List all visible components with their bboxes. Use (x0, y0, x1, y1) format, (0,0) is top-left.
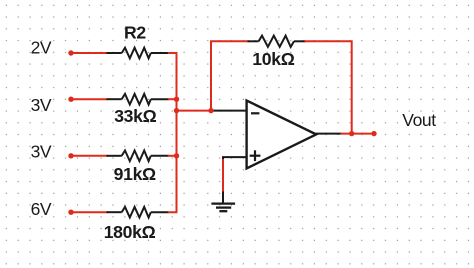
junction node bus/33kΩ (174, 97, 179, 102)
wire 6V source to resistor (red) (71, 211, 108, 213)
wire output to Vout (red) (341, 133, 375, 135)
wire summing bus (red, connects all four resistor outputs) (168, 53, 177, 212)
svg-text:91kΩ: 91kΩ (114, 164, 156, 184)
wire non-inverting input (black) (223, 157, 247, 160)
svg-text:2V: 2V (31, 37, 52, 57)
junction node bus/inverting branch (174, 108, 179, 113)
svg-text:3V: 3V (31, 95, 52, 115)
svg-text:10kΩ: 10kΩ (252, 49, 294, 69)
svg-text:R2: R2 (124, 23, 146, 43)
resistor 91kΩ (107, 151, 169, 162)
svg-text:Vout: Vout (402, 110, 436, 130)
wire 2V source to R2 (red) (71, 52, 108, 54)
wire ground lead (black) (222, 192, 224, 204)
node 3V input terminal (row 2) (68, 97, 73, 102)
wire op-amp output (black) (316, 133, 342, 135)
wire 3V source (row 2) to resistor (red) (71, 98, 108, 100)
svg-text:3V: 3V (31, 142, 52, 162)
junction node bus/91kΩ (174, 153, 179, 158)
wire 3V source (row 3) to resistor (red) (71, 155, 108, 157)
wire 33kΩ output stub (red) (168, 98, 177, 100)
svg-text:6V: 6V (31, 199, 52, 219)
svg-text:33kΩ: 33kΩ (114, 106, 156, 126)
resistor 180kΩ (107, 207, 169, 218)
node 3V input terminal (row 3) (68, 153, 73, 158)
wire 91kΩ output stub (red) (168, 155, 177, 157)
resistor R2 (107, 48, 169, 59)
node Vout terminal (371, 131, 376, 136)
wire to ground (red) (222, 159, 224, 192)
ground (211, 204, 235, 212)
wire feedback left+top (red) (211, 41, 249, 109)
resistor 33kΩ (107, 94, 169, 105)
resistor 10kΩ (feedback) (248, 36, 306, 47)
svg-text:180kΩ: 180kΩ (104, 222, 156, 242)
op-amp U1 (247, 101, 317, 169)
junction node feedback tap (208, 108, 213, 113)
wire summing junction to feedback tap (red) (177, 110, 212, 112)
node 2V input terminal (68, 50, 73, 55)
node 6V input terminal (68, 210, 73, 215)
wire inverting input lead (black) (211, 110, 247, 112)
junction node output/feedback (349, 131, 354, 136)
wire feedback top-right + right (red) (305, 41, 352, 133)
